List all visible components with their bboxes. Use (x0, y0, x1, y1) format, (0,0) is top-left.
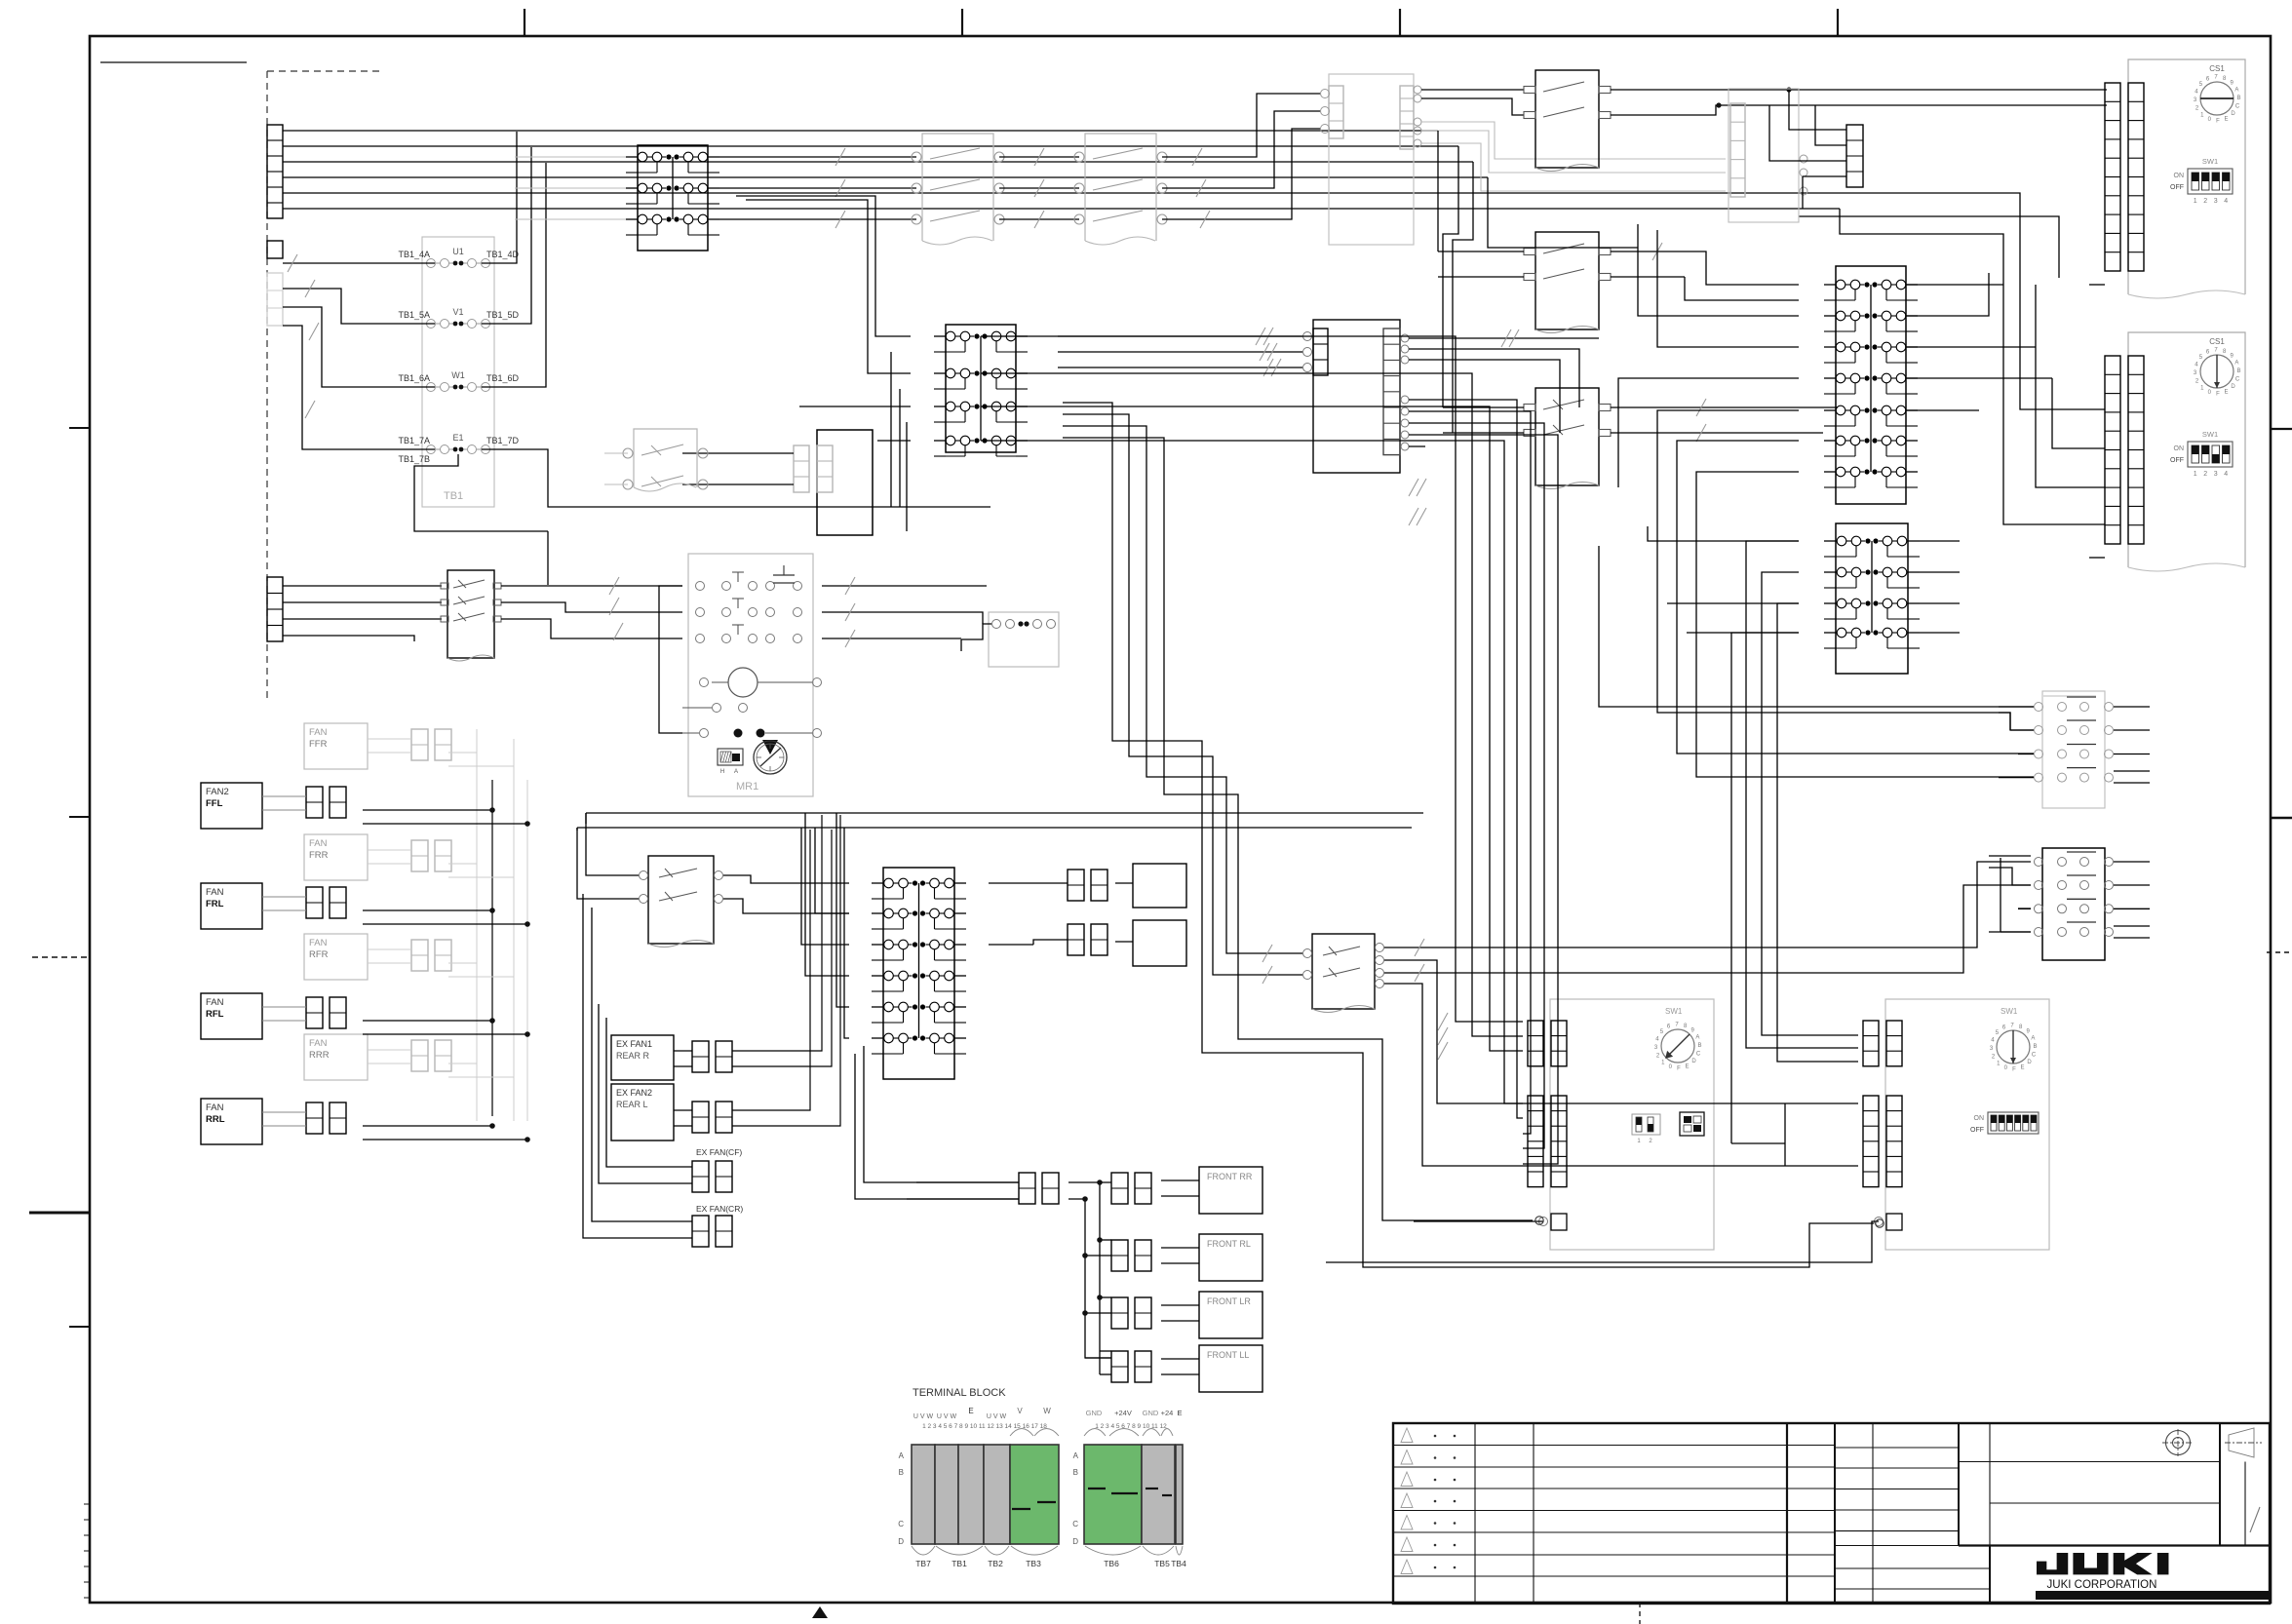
svg-text:C: C (2235, 377, 2240, 383)
contactor MC (dark small) with X marks (447, 570, 494, 658)
svg-text:TB1_6A: TB1_6A (398, 373, 430, 383)
wires into SB1 from left (586, 813, 639, 875)
wire into SW1#1 bottom connector (1414, 1220, 1543, 1222)
SB1 outputs to CC1 (723, 875, 849, 883)
connector cols left of SW1 #1 upper (1528, 1021, 1543, 1066)
connector stack CN2 left-middle (267, 577, 283, 641)
K1 left leads (light) (515, 156, 626, 158)
svg-text:E: E (968, 1407, 973, 1415)
TR2 wires right of light box (1799, 216, 2059, 278)
svg-text:JUKI CORPORATION: JUKI CORPORATION (2047, 1579, 2157, 1591)
FRONT LL box (1199, 1345, 1263, 1392)
svg-text:1: 1 (2194, 471, 2197, 478)
CA1 right outputs to CS col verticals (1906, 284, 2003, 286)
wires into RM1 (1999, 706, 2034, 708)
bundle R from B1 right leads to SW1 connector staircase (981, 336, 1523, 1022)
wires MC to MR1 (501, 585, 682, 587)
B1 stub verticals going down (890, 352, 892, 507)
svg-text:TB1_7D: TB1_7D (486, 436, 520, 445)
dashed boundary line vertical (266, 71, 268, 701)
svg-text:F: F (1677, 1066, 1681, 1072)
svg-text:RFR: RFR (309, 949, 329, 960)
slash marks on TB1 input wires (288, 254, 297, 272)
connector pair for FRL (306, 887, 323, 918)
svg-text:MR1: MR1 (736, 781, 758, 793)
svg-text:TB3: TB3 (1026, 1559, 1041, 1568)
timer relay MR1 box (688, 554, 813, 796)
svg-text:E: E (1177, 1409, 1182, 1417)
DIP switch SW1 #2 (2188, 442, 2233, 467)
title block revision rows (1393, 1445, 1787, 1447)
rotary SW1 #2 (1997, 1030, 2030, 1063)
fan block FAN RFR (light) (304, 934, 368, 980)
MR1 coil circle (728, 668, 758, 697)
wires from stack to the right and down to TB1 (283, 130, 1438, 132)
svg-text:D: D (2027, 1060, 2032, 1065)
connector columns left of CS1 #1 (2105, 83, 2120, 271)
terminal block left group gray cells (912, 1445, 935, 1544)
fan block FAN FRL (dark) (201, 883, 262, 929)
stub under connector col (2089, 557, 2105, 559)
connector pair for FFR (411, 729, 428, 760)
TB1 terminal row U1 (427, 259, 436, 268)
wires into RM2 (1989, 855, 2031, 857)
dashed boundary line horizontal (267, 70, 379, 72)
wires into TS2 from left (1438, 251, 1524, 252)
svg-text:FRONT RL: FRONT RL (1207, 1239, 1251, 1249)
EX FAN left feed wires (583, 894, 692, 1238)
wires into FRONT input pair (916, 1181, 1019, 1183)
light box TR1 top right (1729, 89, 1799, 222)
breaker SB1 center (dark) (648, 856, 714, 944)
wires K1 to LS1 switch rows (719, 156, 916, 158)
svg-text:REAR L: REAR L (616, 1100, 648, 1109)
MR1 wire loop left (659, 586, 682, 733)
left border tick marks (69, 427, 90, 429)
breaker LS0 light left of JB (634, 429, 697, 487)
svg-text:W: W (1043, 1407, 1051, 1415)
brace arcs top (1010, 1429, 1033, 1437)
svg-text:3: 3 (2214, 471, 2218, 478)
title block outer (1393, 1423, 2270, 1604)
FRONT RL connector pair (1111, 1240, 1128, 1271)
right section rows (1959, 1461, 2220, 1463)
FL1 light outputs going right-down (1421, 122, 1726, 159)
wires LS1 to LS2 (999, 156, 1079, 158)
MR1 contact rows (696, 582, 705, 591)
svg-text:FRR: FRR (309, 850, 329, 861)
svg-text:B: B (1073, 1468, 1078, 1477)
svg-text:U V W: U V W (987, 1413, 1007, 1420)
svg-text:A: A (2234, 361, 2238, 367)
svg-text:TB2: TB2 (988, 1559, 1003, 1568)
svg-text:GND: GND (1143, 1409, 1159, 1417)
svg-text:FAN: FAN (206, 997, 224, 1008)
svg-text:D: D (1691, 1059, 1696, 1064)
svg-text:ON: ON (1974, 1115, 1985, 1122)
MR1 bottom row with black dots (700, 729, 709, 738)
svg-text:F: F (2012, 1067, 2016, 1073)
fan block FAN RRR (light) (304, 1034, 368, 1080)
terminal block right group (1084, 1445, 1142, 1544)
EX FAN1 REAR R box (611, 1035, 674, 1080)
svg-text:FFL: FFL (206, 798, 223, 809)
control unit box SW1 #1 (light) (1550, 999, 1714, 1250)
breaker LS1 (light) (922, 134, 993, 241)
svg-text:D: D (2231, 111, 2235, 117)
wires from RM2 up (left feeds) (2018, 908, 2031, 909)
svg-text:SW1: SW1 (2202, 157, 2218, 166)
svg-text:U1: U1 (452, 247, 464, 256)
vertical feeds into CC1 from horizontal bus (801, 828, 849, 945)
connector stack CN1 top-left (267, 125, 283, 218)
svg-text:TB1_7B: TB1_7B (398, 454, 430, 464)
svg-text:1: 1 (2194, 198, 2197, 205)
FRONT LR connector pair (1111, 1297, 1128, 1329)
wires into JB from left (682, 452, 794, 454)
wires LS2 out right then up to FL1 (1162, 94, 1321, 157)
breaker TS1 top right (dark) (1535, 70, 1599, 168)
fan block FAN2 FFL (dark) (201, 783, 262, 829)
EX FAN2 REAR L box (611, 1084, 674, 1141)
connector array CA2 4rows (1836, 523, 1908, 674)
svg-text:FRONT RR: FRONT RR (1207, 1172, 1253, 1181)
connector single CN lower left (267, 241, 283, 258)
dark box right of pairs r2 (1133, 920, 1186, 966)
svg-text:FAN: FAN (309, 727, 328, 738)
svg-text:4: 4 (2224, 198, 2228, 205)
FL2 output wires right (top group) (1401, 334, 1409, 342)
connector pair for RFR (411, 940, 428, 971)
FRONT RR box (1199, 1167, 1263, 1214)
svg-text:CS1: CS1 (2209, 64, 2225, 73)
FL2 input wires (1058, 335, 1302, 337)
svg-text:C: C (1696, 1052, 1701, 1058)
TB1 terminal row E1 (427, 445, 436, 454)
B1 row3 row4 left feeds from left (799, 406, 911, 407)
svg-text:TB7: TB7 (915, 1559, 931, 1568)
svg-text:1 2 3 4 5 6 7 8 9 10 1: 1 2 3 4 5 6 7 8 9 10 11 12 (1095, 1423, 1167, 1430)
relay block RM1 (light) right middle (2042, 691, 2105, 808)
black bar bottom (2036, 1591, 2270, 1600)
svg-text:TB1_5A: TB1_5A (398, 310, 430, 320)
fan wiring vertical bus lines (light) (476, 729, 478, 1121)
verticals top right to CS2 cols (1840, 209, 2105, 524)
feeds into RM1 from left (1599, 546, 2034, 707)
JUKI logo (2037, 1553, 2168, 1574)
wires TS1 to right with junction dots (1611, 89, 2107, 91)
svg-text:ON: ON (2174, 173, 2185, 179)
svg-text:B: B (2236, 96, 2240, 101)
relay block K1 (638, 145, 708, 251)
filter block FL1 (light) top center (1329, 74, 1414, 245)
svg-text:TB1_6D: TB1_6D (486, 373, 520, 383)
svg-text:U V W: U V W (937, 1413, 957, 1420)
svg-text:FAN: FAN (206, 1102, 224, 1113)
svg-text:TB1_4A: TB1_4A (398, 250, 430, 259)
svg-text:FRONT LR: FRONT LR (1207, 1296, 1251, 1306)
svg-text:GND: GND (1086, 1409, 1103, 1417)
brace arcs bottom (912, 1546, 935, 1555)
controller box CS1 #1 (light outline) (2128, 59, 2245, 294)
svg-text:REAR R: REAR R (616, 1051, 650, 1061)
pairs right of CC1 row3 (1068, 924, 1084, 955)
connector array CC1 6rows center (883, 868, 954, 1079)
E1 wire from TB1 to right (482, 449, 991, 507)
projection cone symbol (2229, 1428, 2254, 1457)
svg-text:TB1: TB1 (952, 1559, 967, 1568)
bottom dashed tick (1639, 1603, 1641, 1624)
svg-text:OFF: OFF (1970, 1127, 1984, 1134)
svg-text:D: D (1072, 1537, 1078, 1546)
svg-text:B: B (899, 1468, 904, 1477)
switch SB2 center (dark) (1312, 934, 1375, 1009)
terminal block TB1 outline (422, 237, 494, 507)
breaker LS2 (light) (1085, 134, 1156, 241)
top border tick marks (524, 9, 525, 36)
svg-text:FAN2: FAN2 (206, 787, 229, 797)
svg-text:B: B (2033, 1044, 2037, 1050)
pairs right of CC1 row1 (1068, 870, 1084, 901)
stub under connector col (2089, 284, 2105, 286)
control unit box SW1 #2 (light) (1885, 999, 2049, 1250)
svg-text:FAN: FAN (309, 938, 328, 948)
title underline top-left (100, 61, 247, 63)
svg-text:FRONT LL: FRONT LL (1207, 1350, 1249, 1360)
right border tick marks (2271, 428, 2292, 430)
svg-text:OFF: OFF (2170, 184, 2184, 191)
B1 left leads rising to LS stub rows (736, 196, 911, 336)
connector block B1 4rows center-top (946, 325, 1016, 452)
verticals feeding SW2 upper cols from CA2 leads (1746, 541, 1858, 1048)
bottom small connector SW1 #1 (1551, 1214, 1567, 1230)
svg-text:3: 3 (2214, 198, 2218, 205)
FRONT RL box (1199, 1234, 1263, 1281)
svg-text:E: E (2020, 1064, 2024, 1070)
svg-text:A: A (1073, 1451, 1079, 1460)
svg-text:SW1: SW1 (2001, 1007, 2018, 1016)
bottom center black triangle fiducial (812, 1606, 828, 1618)
svg-text:ON: ON (2174, 445, 2185, 452)
fan block FAN FFR (light) (304, 723, 368, 769)
wires out of RM1 right (2114, 706, 2150, 708)
svg-text:EX FAN(CF): EX FAN(CF) (696, 1147, 742, 1157)
MR1 triangle marker (762, 740, 778, 754)
svg-text:B: B (1697, 1043, 1701, 1049)
dark box right of pairs r1 (1133, 864, 1186, 908)
svg-text:CS1: CS1 (2209, 337, 2225, 346)
svg-text:FAN: FAN (309, 838, 328, 849)
svg-text:F: F (2216, 392, 2220, 398)
svg-text:B: B (2236, 368, 2240, 374)
DIP6 switch (1988, 1112, 2039, 1134)
svg-text:TB6: TB6 (1104, 1559, 1119, 1568)
CC1 bottom feeds to FRONT input (864, 1046, 1019, 1182)
svg-text:4: 4 (2224, 471, 2228, 478)
two small DIP boxes (1632, 1114, 1660, 1135)
fan block FAN RRL (dark) (201, 1099, 262, 1144)
connector pair for RFL (306, 997, 323, 1028)
wires TS2 to right (1611, 251, 1706, 269)
wires out of RM2 (2114, 861, 2150, 863)
wires out of MR1 right side (822, 585, 987, 587)
wires TB1 right side going up to top bus (482, 132, 517, 263)
svg-text:C: C (1072, 1520, 1078, 1528)
MR1 mode switch H/A (718, 749, 743, 765)
FRONT RL LR LL feeds (1100, 1239, 1111, 1241)
junction box JB (dark) center x838 (817, 430, 873, 535)
svg-text:+24: +24 (1161, 1409, 1174, 1417)
svg-text:TB1_5D: TB1_5D (486, 310, 520, 320)
EX FAN pair outputs going up to bus (732, 815, 822, 1051)
svg-text:2: 2 (2203, 471, 2207, 478)
svg-text:EX FAN1: EX FAN1 (616, 1039, 652, 1049)
svg-text:E: E (1685, 1063, 1689, 1069)
svg-text:F: F (2216, 119, 2220, 125)
svg-text:A: A (734, 769, 738, 775)
svg-text:RRL: RRL (206, 1114, 225, 1125)
DIP switch SW1 #1 (2188, 169, 2233, 194)
svg-text:FAN: FAN (206, 887, 224, 898)
CA1 left lead wires from top (1706, 269, 1799, 285)
svg-text:TB1: TB1 (444, 490, 463, 502)
svg-text:E: E (2224, 389, 2228, 395)
light connector column left of JB (794, 445, 809, 492)
long horizontal bus pair (586, 812, 1423, 814)
light connector cells below (267, 273, 283, 326)
svg-text:FFR: FFR (309, 739, 328, 750)
svg-text:H: H (720, 769, 724, 775)
connector cols left of SW1 #2 lower (1863, 1096, 1879, 1187)
revision table verticals (1474, 1423, 1476, 1604)
svg-text:V: V (1017, 1407, 1023, 1415)
FL2 output wires right (bottom group) (1401, 396, 1409, 404)
svg-text:FAN: FAN (309, 1038, 328, 1049)
svg-text:D: D (2231, 384, 2235, 390)
svg-text:W1: W1 (451, 370, 465, 380)
FL1 dark outputs to TS1 (1421, 89, 1524, 91)
svg-text:RRR: RRR (309, 1050, 330, 1061)
MR1 capacitor symbol (773, 574, 795, 576)
svg-text:TB1_4D: TB1_4D (486, 250, 520, 259)
connector array CA1 7rows (1836, 266, 1906, 504)
third angle projection symbol (2166, 1431, 2191, 1455)
MR1 timer dial (754, 741, 787, 774)
svg-text:+24V: +24V (1114, 1409, 1132, 1417)
small ruler ticks inside left border bottom (84, 1503, 90, 1505)
fan block FAN FRR (light) (304, 834, 368, 880)
connector pair for FFL (306, 787, 323, 818)
connector pair for RRL (306, 1102, 323, 1134)
svg-text:OFF: OFF (2170, 457, 2184, 464)
revision triangles and dots (1401, 1428, 1413, 1443)
bundle M verticals center (1063, 403, 1874, 1267)
controller box CS1 #2 (light outline) (2128, 332, 2245, 567)
TB1 terminal row V1 (427, 320, 436, 329)
svg-text:1 2 3 4 5 6 7 8 9 10 11 12 13: 1 2 3 4 5 6 7 8 9 10 11 12 13 14 15 16 1… (922, 1423, 1047, 1430)
svg-text:A: A (2031, 1036, 2035, 1042)
svg-text:TB4: TB4 (1171, 1559, 1186, 1568)
breaker TS2 mid right (dark) (1535, 232, 1599, 329)
small relay box RB center (light) with contacts (989, 612, 1059, 667)
svg-text:A: A (2234, 88, 2238, 94)
svg-text:D: D (898, 1537, 904, 1546)
svg-text:RFL: RFL (206, 1009, 224, 1020)
relay block RM2 (dark) right middle lower (2042, 848, 2105, 960)
svg-text:E1: E1 (452, 433, 463, 443)
bottom small connector SW1 #2 (1886, 1214, 1902, 1230)
svg-text:TERMINAL BLOCK: TERMINAL BLOCK (913, 1387, 1006, 1399)
connector pair for FRR (411, 840, 428, 871)
svg-text:E: E (2224, 116, 2228, 122)
middle section grid (1834, 1423, 1836, 1604)
svg-text:FRL: FRL (206, 899, 224, 909)
breaker TS3 (dark) below (1535, 388, 1599, 485)
wire into SW1#2 bottom connector (1326, 1221, 1879, 1262)
connector pair for RRR (411, 1040, 428, 1071)
svg-text:EX FAN2: EX FAN2 (616, 1088, 652, 1098)
wires to TB1 rows (283, 262, 435, 264)
connector cols left of SW1 #2 upper (1863, 1021, 1879, 1066)
rotary SW1 #1 (1661, 1029, 1694, 1063)
svg-text:C: C (2032, 1053, 2037, 1059)
connector columns left of CS1 #2 (2105, 356, 2120, 544)
FRONT chain bus with dots (1068, 1181, 1111, 1183)
bracket feeding SW2 lower connectors (1784, 1103, 1786, 1166)
fan block FAN RFL (dark) (201, 993, 262, 1039)
fan wiring vertical bus (dark) (491, 780, 493, 1116)
wires CN2 to MC (283, 585, 442, 587)
wires top bus turning down right side (1437, 131, 1439, 251)
svg-text:TB1_7A: TB1_7A (398, 436, 430, 445)
svg-text:V1: V1 (452, 307, 463, 317)
svg-text:SW1: SW1 (1665, 1007, 1683, 1016)
FRONT LR box (1199, 1292, 1263, 1338)
horizontal runs into CA2 (1648, 526, 1799, 541)
input pair for FRONT chain (1019, 1173, 1035, 1204)
svg-text:EX FAN(CR): EX FAN(CR) (696, 1204, 743, 1214)
MR1 aux contacts (713, 704, 721, 713)
svg-text:U V W: U V W (913, 1413, 934, 1420)
connector cols left of SW1 #1 lower (1528, 1096, 1543, 1187)
small connector 4cell top right (1846, 125, 1863, 187)
TB1 terminal row W1 (427, 383, 436, 392)
fan wires with junction dots (448, 752, 477, 754)
FRONT LL connector pair (1111, 1351, 1128, 1382)
filter block FL2 center (dark) (1313, 320, 1400, 473)
SB2 outputs right (1384, 862, 2031, 947)
wires out CA2 right (1920, 540, 1960, 542)
terminal block wire dashes (1012, 1508, 1030, 1510)
svg-text:SW1: SW1 (2202, 430, 2218, 439)
svg-text:2: 2 (2203, 198, 2207, 205)
slash in sheet box (2250, 1507, 2260, 1532)
wires TS3 (1443, 406, 1524, 408)
svg-text:C: C (2235, 104, 2240, 110)
svg-text:TB5: TB5 (1154, 1559, 1170, 1568)
svg-text:A: A (899, 1451, 905, 1460)
FRONT RR connector pair (1111, 1173, 1128, 1204)
svg-text:A: A (1695, 1035, 1699, 1041)
svg-text:C: C (898, 1520, 904, 1528)
